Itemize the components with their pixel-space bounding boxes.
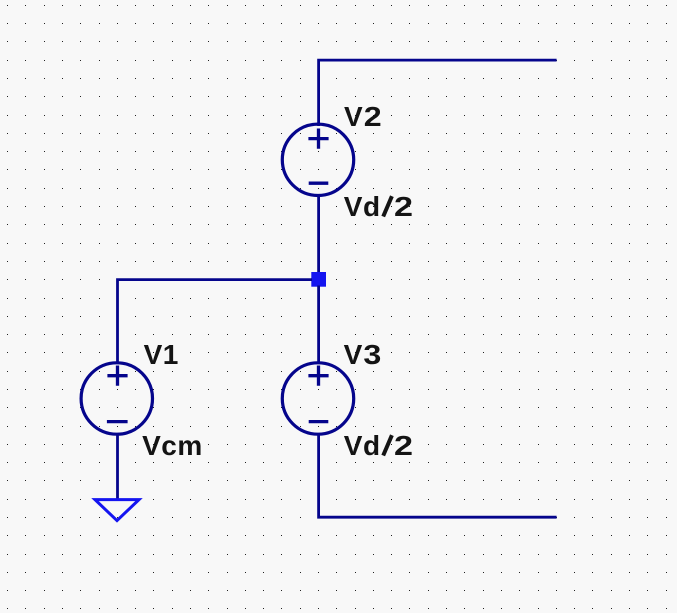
wire: left branch from junction to V1 top [118,280,313,364]
circle of V2 [282,124,353,195]
node junction (filled square) [311,272,326,287]
svg-text:2: 2 [394,430,414,461]
wire: junction down to V3 top [317,286,320,365]
ground symbol [95,500,139,521]
svg-text:Vd: Vd [344,430,381,461]
wire: top output net, from V2 top up and right [319,60,557,126]
svg-text:V1: V1 [144,339,179,370]
plus sign of V3 [308,366,328,386]
minus sign of V1 [107,420,128,423]
svg-text:3: 3 [363,340,381,371]
svg-text:Vcm: Vcm [142,430,203,461]
value label Vd/2 of V3 [344,430,414,461]
label V3 [344,339,382,370]
circle of V1 [81,363,152,434]
voltage source V2 [282,124,353,195]
svg-text:Vd: Vd [344,191,381,222]
circle of V3 [282,363,353,434]
voltage source V3 [282,363,353,434]
value label Vd/2 of V2 [344,191,414,222]
plus sign of V1 [107,366,127,386]
plus sign of V2 [308,129,328,149]
svg-text:V: V [344,339,363,370]
wire: V1 bottom to ground [116,433,119,499]
voltage source V1 [81,363,152,434]
minus sign of V2 [309,182,329,185]
minus sign of V3 [309,420,329,423]
svg-text:V: V [344,101,363,132]
wire: V3 bottom down and right to bottom output net [319,433,557,517]
svg-text:2: 2 [364,102,382,133]
svg-text:2: 2 [394,191,414,222]
label V2 [344,101,382,132]
wire: V2 bottom to junction [317,194,320,274]
